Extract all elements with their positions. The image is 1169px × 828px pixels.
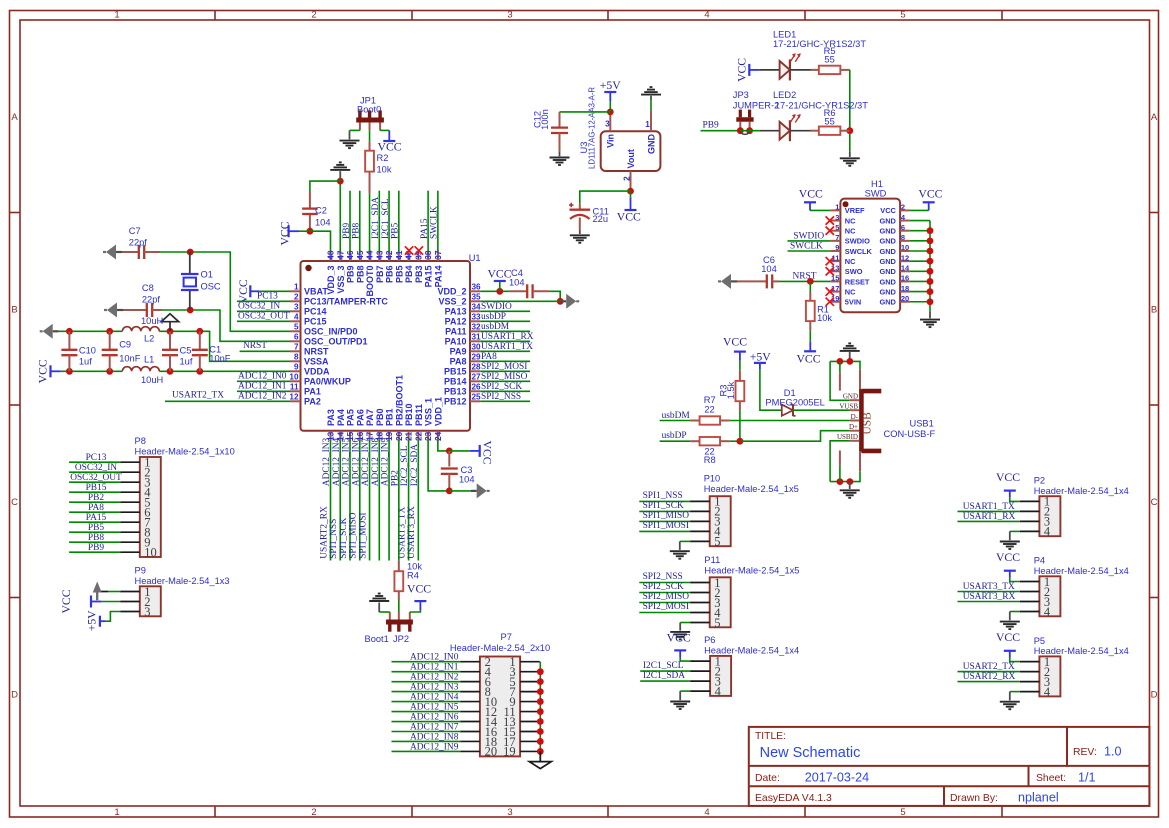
svg-text:10nF: 10nF [119, 354, 141, 364]
svg-text:SPI2_MISO: SPI2_MISO [643, 592, 690, 602]
svg-text:C9: C9 [119, 340, 131, 350]
svg-text:9: 9 [835, 243, 839, 252]
svg-text:PB10: PB10 [404, 403, 414, 426]
svg-text:ADC12_IN8: ADC12_IN8 [371, 437, 381, 486]
svg-text:PB8: PB8 [88, 533, 104, 543]
svg-text:C7: C7 [129, 226, 141, 236]
svg-text:Header-Male-2.54_1x3: Header-Male-2.54_1x3 [135, 576, 230, 586]
svg-text:1.0: 1.0 [1104, 744, 1122, 758]
svg-text:PA5: PA5 [346, 409, 356, 426]
svg-text:VDDA: VDDA [304, 367, 330, 377]
svg-text:VCC: VCC [278, 221, 291, 245]
svg-text:C5: C5 [180, 346, 192, 356]
svg-text:SPI1_MISO: SPI1_MISO [349, 512, 359, 559]
svg-text:VCC: VCC [996, 551, 1020, 564]
svg-text:SWCLK: SWCLK [790, 242, 823, 252]
svg-text:PA15: PA15 [424, 266, 434, 288]
svg-text:Header-Male-2.54_1x4: Header-Male-2.54_1x4 [1034, 486, 1129, 496]
svg-text:VSS_1: VSS_1 [424, 398, 434, 426]
svg-text:VDD_1: VDD_1 [433, 397, 443, 426]
svg-text:SPI2_SCK: SPI2_SCK [643, 582, 684, 592]
svg-text:New Schematic: New Schematic [760, 745, 861, 761]
svg-text:PB14: PB14 [444, 377, 467, 387]
svg-text:VCC: VCC [60, 589, 73, 613]
svg-text:Vout: Vout [626, 149, 636, 168]
svg-text:VCC: VCC [481, 441, 494, 465]
svg-text:PA15: PA15 [420, 218, 430, 239]
svg-text:P6: P6 [704, 635, 715, 645]
svg-text:PB15: PB15 [444, 367, 467, 377]
svg-text:55: 55 [824, 55, 834, 65]
svg-text:2: 2 [311, 807, 316, 818]
svg-text:17-21/GHC-YR1S2/3T: 17-21/GHC-YR1S2/3T [773, 39, 866, 49]
svg-text:1: 1 [114, 807, 119, 818]
svg-text:10: 10 [144, 546, 157, 560]
svg-text:Header-Male-2.54_1x10: Header-Male-2.54_1x10 [135, 447, 235, 457]
svg-text:PB9: PB9 [346, 266, 356, 284]
svg-text:8: 8 [294, 353, 299, 362]
svg-text:Header-Male-2.54_1x5: Header-Male-2.54_1x5 [704, 484, 799, 494]
svg-text:VCC: VCC [736, 58, 749, 82]
svg-text:SPI1_SCK: SPI1_SCK [643, 501, 684, 511]
svg-text:SWDIO: SWDIO [793, 231, 824, 241]
svg-text:Drawn By:: Drawn By: [950, 793, 998, 804]
svg-text:LED2: LED2 [773, 90, 796, 100]
svg-text:NC: NC [845, 216, 856, 225]
svg-text:5: 5 [900, 9, 905, 20]
svg-text:VSS_2: VSS_2 [438, 297, 466, 307]
svg-text:nplanel: nplanel [1018, 790, 1059, 804]
svg-text:34: 34 [472, 303, 482, 312]
svg-text:2: 2 [311, 9, 316, 20]
svg-text:SPI2_SCK: SPI2_SCK [481, 382, 522, 392]
svg-text:C3: C3 [461, 465, 473, 475]
svg-text:GND: GND [646, 134, 656, 155]
svg-text:3: 3 [294, 303, 299, 312]
svg-text:PMEG2005EL: PMEG2005EL [765, 398, 824, 408]
svg-text:SWDIO: SWDIO [845, 237, 870, 246]
svg-text:10nF: 10nF [209, 354, 231, 364]
svg-text:PB15: PB15 [86, 483, 107, 493]
svg-text:NRST: NRST [243, 341, 267, 351]
svg-text:4: 4 [1044, 685, 1051, 699]
svg-text:PB9: PB9 [88, 543, 104, 553]
svg-text:4: 4 [704, 9, 709, 20]
svg-text:Header-Male-2.54_1x4: Header-Male-2.54_1x4 [1034, 646, 1129, 656]
svg-text:NRST: NRST [793, 272, 817, 282]
svg-text:10k: 10k [377, 165, 392, 175]
svg-text:SWCLK: SWCLK [845, 247, 873, 256]
svg-text:PB6: PB6 [385, 266, 395, 284]
svg-text:B: B [1151, 305, 1157, 316]
svg-text:USART2_RX: USART2_RX [963, 672, 1016, 682]
svg-text:ADC12_IN9: ADC12_IN9 [410, 742, 459, 752]
svg-text:Header-Male-2.54_1x5: Header-Male-2.54_1x5 [704, 566, 799, 576]
svg-text:SPI2_MOSI: SPI2_MOSI [481, 362, 527, 372]
svg-text:P10: P10 [704, 473, 721, 483]
svg-text:VCC: VCC [996, 471, 1020, 484]
svg-text:3: 3 [605, 120, 610, 129]
svg-text:3: 3 [144, 605, 150, 619]
svg-text:1uf: 1uf [180, 357, 193, 367]
svg-text:14: 14 [901, 264, 910, 273]
svg-text:PA8: PA8 [481, 352, 497, 362]
svg-text:28: 28 [472, 363, 482, 372]
svg-text:43: 43 [375, 250, 384, 260]
svg-text:GND: GND [879, 237, 896, 246]
svg-text:PA3: PA3 [326, 409, 336, 426]
svg-text:PB9: PB9 [703, 120, 719, 130]
svg-text:PA0/WKUP: PA0/WKUP [304, 377, 351, 387]
svg-text:PB8: PB8 [352, 223, 362, 239]
svg-text:3: 3 [507, 9, 512, 20]
svg-text:4: 4 [704, 807, 709, 818]
svg-text:A: A [11, 112, 18, 123]
svg-text:EasyEDA V4.1.3: EasyEDA V4.1.3 [755, 793, 832, 804]
svg-text:usbDP: usbDP [662, 431, 687, 441]
svg-text:P8: P8 [135, 436, 146, 446]
svg-text:PB4: PB4 [404, 266, 414, 284]
svg-text:PC13: PC13 [86, 453, 107, 463]
svg-text:5: 5 [294, 323, 299, 332]
svg-text:12: 12 [289, 393, 299, 402]
svg-text:SPI1_MISO: SPI1_MISO [643, 511, 690, 521]
svg-text:GND: GND [879, 216, 896, 225]
svg-text:18: 18 [901, 284, 909, 293]
svg-text:USART2_TX: USART2_TX [963, 662, 1015, 672]
svg-text:21: 21 [405, 431, 414, 441]
svg-text:I2C1_SDA: I2C1_SDA [371, 197, 381, 239]
svg-text:C2: C2 [315, 206, 327, 216]
svg-text:VCC: VCC [378, 141, 402, 154]
svg-text:PA14: PA14 [433, 266, 443, 288]
svg-text:USART1_TX: USART1_TX [963, 502, 1015, 512]
svg-text:4: 4 [1044, 605, 1051, 619]
svg-text:2: 2 [622, 176, 631, 181]
svg-text:1: 1 [294, 283, 299, 292]
svg-text:CON-USB-F: CON-USB-F [884, 429, 936, 439]
svg-text:USART2_TX: USART2_TX [172, 390, 224, 400]
svg-text:1.5k: 1.5k [726, 381, 736, 399]
svg-text:LD1117AG-12-AA3-A-R: LD1117AG-12-AA3-A-R [587, 87, 596, 169]
svg-text:O1: O1 [201, 270, 213, 280]
svg-text:I2C2_SDA: I2C2_SDA [410, 444, 420, 486]
svg-text:USART3_RX: USART3_RX [963, 592, 1016, 602]
svg-text:D+: D+ [849, 423, 858, 431]
svg-text:19: 19 [503, 745, 516, 759]
svg-text:VCC: VCC [796, 352, 820, 365]
svg-text:6: 6 [901, 223, 905, 232]
svg-text:TITLE:: TITLE: [755, 731, 786, 742]
svg-text:VCC: VCC [723, 335, 747, 348]
svg-text:I2C1_SDA: I2C1_SDA [643, 671, 685, 681]
svg-text:8: 8 [901, 233, 905, 242]
svg-text:PC15: PC15 [304, 317, 327, 327]
svg-text:PB13: PB13 [444, 387, 467, 397]
svg-text:OSC_OUT/PD1: OSC_OUT/PD1 [304, 337, 368, 347]
svg-text:R8: R8 [704, 455, 716, 465]
svg-text:PB9: PB9 [342, 223, 352, 239]
svg-text:47: 47 [336, 250, 345, 260]
svg-text:REV:: REV: [1073, 747, 1097, 758]
svg-text:SPI1_SCK: SPI1_SCK [339, 517, 349, 558]
svg-text:I2C2_SCL: I2C2_SCL [400, 445, 410, 486]
svg-text:PB5: PB5 [391, 223, 401, 239]
svg-text:ADC12_IN4: ADC12_IN4 [332, 437, 342, 486]
svg-text:Header-Male-2.54_1x4: Header-Male-2.54_1x4 [704, 645, 799, 655]
svg-text:5VIN: 5VIN [845, 298, 861, 307]
svg-text:VREF: VREF [845, 206, 865, 215]
svg-text:Date:: Date: [755, 773, 780, 784]
svg-text:JP3: JP3 [733, 90, 749, 100]
svg-text:C10: C10 [79, 346, 96, 356]
svg-text:38: 38 [424, 250, 433, 260]
svg-text:PA7: PA7 [365, 409, 375, 426]
svg-text:OSC32_OUT: OSC32_OUT [238, 311, 290, 321]
svg-text:VCC: VCC [996, 631, 1020, 644]
svg-text:10: 10 [289, 373, 299, 382]
svg-text:17-21/GHC-YR1S2/3T: 17-21/GHC-YR1S2/3T [775, 101, 868, 111]
svg-text:USART1_TX: USART1_TX [481, 342, 533, 352]
svg-text:22: 22 [414, 431, 423, 441]
svg-text:Header-Male-2.54_1x4: Header-Male-2.54_1x4 [1034, 566, 1129, 576]
svg-text:5: 5 [714, 535, 720, 549]
svg-text:45: 45 [356, 250, 365, 260]
svg-text:SPI1_NSS: SPI1_NSS [643, 491, 683, 501]
svg-text:PB1: PB1 [385, 408, 395, 426]
svg-text:+5V: +5V [750, 350, 771, 363]
svg-text:PB0: PB0 [375, 408, 385, 426]
svg-text:NC: NC [845, 227, 856, 236]
svg-text:D: D [11, 690, 18, 701]
svg-text:SPI2_NSS: SPI2_NSS [643, 572, 683, 582]
svg-text:VSS_3: VSS_3 [336, 266, 346, 294]
svg-text:P11: P11 [704, 555, 720, 565]
svg-text:VCC: VCC [799, 188, 823, 201]
svg-text:GND: GND [879, 227, 896, 236]
svg-text:37: 37 [434, 250, 443, 260]
svg-text:22u: 22u [593, 214, 609, 224]
svg-text:PB5: PB5 [88, 523, 104, 533]
svg-text:ADC12_IN1: ADC12_IN1 [410, 663, 459, 673]
svg-text:1/1: 1/1 [1078, 771, 1096, 785]
svg-text:4: 4 [294, 313, 299, 322]
svg-text:SPI1_NSS: SPI1_NSS [329, 519, 339, 559]
svg-text:4: 4 [715, 684, 722, 698]
svg-text:PC13: PC13 [257, 291, 278, 301]
svg-text:11: 11 [290, 383, 299, 392]
svg-text:VCC: VCC [617, 210, 641, 223]
svg-text:Boot1: Boot1 [365, 634, 389, 644]
svg-text:PA2: PA2 [304, 397, 321, 407]
svg-text:2: 2 [901, 203, 905, 212]
svg-text:R2: R2 [377, 153, 389, 163]
svg-text:10k: 10k [817, 313, 832, 323]
svg-text:3: 3 [835, 213, 839, 222]
svg-text:48: 48 [327, 250, 336, 260]
svg-text:22: 22 [704, 405, 714, 415]
svg-text:ADC12_IN4: ADC12_IN4 [410, 693, 459, 703]
svg-text:GND: GND [879, 287, 896, 296]
svg-text:P4: P4 [1034, 556, 1045, 566]
svg-text:A: A [1151, 112, 1158, 123]
svg-text:NRST: NRST [304, 347, 329, 357]
svg-text:42: 42 [385, 250, 394, 260]
svg-text:Vin: Vin [606, 134, 616, 148]
svg-text:PA1: PA1 [304, 387, 321, 397]
svg-text:P2: P2 [1034, 476, 1045, 486]
svg-text:Boot0: Boot0 [357, 105, 381, 115]
svg-text:ADC12_IN6: ADC12_IN6 [410, 713, 459, 723]
svg-text:VDD_3: VDD_3 [326, 266, 336, 295]
svg-text:JP2: JP2 [393, 634, 409, 644]
svg-text:PA10: PA10 [445, 337, 467, 347]
svg-text:ADC12_IN0: ADC12_IN0 [410, 653, 459, 663]
svg-text:+5V: +5V [600, 79, 621, 92]
svg-text:1uf: 1uf [79, 357, 92, 367]
svg-text:ADC12_IN5: ADC12_IN5 [342, 437, 352, 486]
svg-text:ADC12_IN2: ADC12_IN2 [238, 391, 287, 401]
svg-text:ADC12_IN2: ADC12_IN2 [410, 673, 459, 683]
svg-text:PA15: PA15 [86, 513, 107, 523]
svg-text:ADC12_IN0: ADC12_IN0 [238, 371, 287, 381]
svg-text:VCC: VCC [237, 279, 250, 303]
svg-text:L2: L2 [144, 334, 154, 344]
svg-text:GND: GND [879, 267, 896, 276]
svg-text:2017-03-24: 2017-03-24 [805, 771, 869, 785]
svg-text:ADC12_IN5: ADC12_IN5 [410, 703, 459, 713]
svg-text:1: 1 [645, 120, 650, 129]
svg-text:RESET: RESET [845, 277, 870, 286]
svg-text:OSC32_IN: OSC32_IN [75, 463, 117, 473]
svg-text:PA8: PA8 [450, 357, 467, 367]
svg-text:29: 29 [472, 353, 482, 362]
svg-text:ADC12_IN9: ADC12_IN9 [381, 437, 391, 486]
svg-text:31: 31 [472, 333, 482, 342]
svg-text:ADC12_IN6: ADC12_IN6 [351, 437, 361, 486]
svg-text:36: 36 [472, 283, 482, 292]
svg-text:46: 46 [346, 250, 355, 260]
svg-text:D: D [1151, 690, 1158, 701]
svg-text:P5: P5 [1034, 636, 1045, 646]
svg-text:SPI1_MOSI: SPI1_MOSI [643, 521, 689, 531]
svg-text:L1: L1 [144, 355, 154, 365]
svg-text:PB7: PB7 [375, 266, 385, 284]
svg-text:24: 24 [434, 431, 443, 441]
svg-text:GND: GND [879, 257, 896, 266]
svg-text:ADC12_IN3: ADC12_IN3 [410, 683, 459, 693]
svg-text:104: 104 [761, 264, 777, 274]
svg-text:SWO: SWO [845, 267, 863, 276]
svg-text:VCC: VCC [918, 188, 942, 201]
svg-text:VCC: VCC [667, 632, 691, 645]
svg-text:SPI2_NSS: SPI2_NSS [481, 392, 521, 402]
svg-text:PA6: PA6 [355, 409, 365, 426]
svg-text:USART1_RX: USART1_RX [963, 512, 1016, 522]
svg-text:VCC: VCC [37, 359, 50, 383]
svg-text:ADC12_IN7: ADC12_IN7 [361, 437, 371, 486]
svg-text:OSC32_IN: OSC32_IN [238, 301, 280, 311]
svg-text:VBAT: VBAT [304, 287, 328, 297]
svg-text:5: 5 [835, 223, 839, 232]
svg-text:PB2: PB2 [88, 493, 104, 503]
svg-text:usbDM: usbDM [481, 322, 510, 332]
svg-text:P7: P7 [501, 632, 512, 642]
svg-text:PB3: PB3 [414, 266, 424, 284]
svg-text:44: 44 [366, 250, 375, 260]
svg-text:3: 3 [507, 807, 512, 818]
svg-text:7: 7 [294, 343, 299, 352]
svg-text:USART3_TX: USART3_TX [963, 582, 1015, 592]
svg-text:GND: GND [879, 247, 896, 256]
svg-text:20: 20 [395, 431, 404, 441]
svg-text:5: 5 [714, 616, 720, 630]
svg-text:C: C [11, 497, 18, 508]
svg-text:35: 35 [472, 293, 482, 302]
svg-text:Sheet:: Sheet: [1036, 773, 1066, 784]
svg-text:104: 104 [315, 218, 331, 228]
svg-text:C4: C4 [511, 268, 523, 278]
svg-text:104: 104 [509, 277, 525, 287]
svg-text:33: 33 [472, 313, 482, 322]
svg-text:PA9: PA9 [450, 347, 467, 357]
svg-text:VSSA: VSSA [304, 357, 329, 367]
svg-text:PC14: PC14 [304, 307, 327, 317]
svg-text:ADC12_IN8: ADC12_IN8 [410, 732, 459, 742]
svg-text:OSC: OSC [201, 282, 221, 292]
svg-text:22pf: 22pf [129, 238, 148, 248]
svg-text:PC13/TAMPER-RTC: PC13/TAMPER-RTC [304, 297, 388, 307]
svg-text:GND: GND [879, 277, 896, 286]
svg-text:PB12: PB12 [444, 397, 467, 407]
svg-text:GND: GND [879, 298, 896, 307]
svg-text:ADC12_IN3: ADC12_IN3 [322, 437, 332, 486]
svg-text:ADC12_IN7: ADC12_IN7 [410, 722, 459, 732]
svg-text:9: 9 [294, 363, 299, 372]
svg-text:5: 5 [900, 807, 905, 818]
svg-text:C: C [1151, 497, 1158, 508]
svg-text:16: 16 [901, 274, 909, 283]
svg-text:R4: R4 [407, 571, 419, 581]
svg-text:PA8: PA8 [88, 503, 104, 513]
svg-text:SWD: SWD [865, 188, 887, 198]
svg-text:26: 26 [472, 383, 482, 392]
svg-text:12: 12 [901, 253, 909, 262]
svg-text:+5V: +5V [86, 610, 99, 631]
svg-text:R7: R7 [704, 395, 716, 405]
svg-text:usbDM: usbDM [662, 411, 691, 421]
svg-text:PA13: PA13 [445, 307, 467, 317]
svg-text:41: 41 [395, 250, 404, 260]
svg-text:10: 10 [901, 243, 909, 252]
svg-text:C8: C8 [142, 283, 154, 293]
svg-text:1: 1 [114, 9, 119, 20]
svg-text:6: 6 [294, 333, 299, 342]
svg-text:7: 7 [835, 233, 839, 242]
svg-text:SPI2_MISO: SPI2_MISO [481, 372, 528, 382]
svg-text:NC: NC [845, 257, 856, 266]
svg-text:USB: USB [861, 412, 873, 435]
svg-text:USB1: USB1 [910, 419, 934, 429]
svg-text:27: 27 [472, 373, 482, 382]
svg-text:PA4: PA4 [336, 409, 346, 426]
svg-text:22pf: 22pf [142, 295, 161, 305]
svg-text:55: 55 [824, 116, 834, 126]
svg-text:VCC: VCC [407, 582, 431, 595]
svg-text:VCC: VCC [880, 206, 896, 215]
svg-text:ADC12_IN1: ADC12_IN1 [238, 381, 287, 391]
svg-text:USART1_RX: USART1_RX [481, 332, 534, 342]
